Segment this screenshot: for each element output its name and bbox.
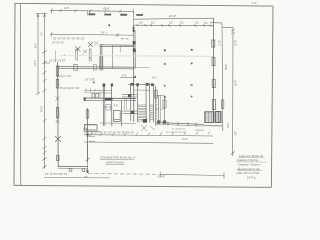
svg-text:Checked + Drawn c: Checked + Drawn c xyxy=(238,162,261,166)
left wall pilaster rects xyxy=(56,66,58,76)
dim line mid-left horizontal xyxy=(50,34,134,35)
svg-text:5'0" 3'6" 5'0" 4'0" 5'0": 5'0" 3'6" 5'0" 4'0" 5'0" xyxy=(166,132,187,134)
cluster vertical x=121.5 xyxy=(120,101,122,126)
cluster vertical x=100 xyxy=(99,90,101,98)
tick marks on lower dim xyxy=(137,24,139,27)
cluster vertical x=112 xyxy=(111,84,113,126)
bottom-left dim line xyxy=(44,177,110,179)
cluster corridor double wall xyxy=(84,97,136,100)
border left inner xyxy=(19,3,21,185)
X brace near ramp xyxy=(141,125,147,131)
pit rectangle xyxy=(114,111,121,122)
small hollow rect in cluster xyxy=(106,105,111,111)
rotated texts right dim lines xyxy=(218,40,237,135)
stair treads left flight xyxy=(138,105,146,121)
right dim vertical line x=232 xyxy=(232,27,234,156)
svg-text:3'6" +: 3'6" + xyxy=(101,32,107,34)
cluster line y123 xyxy=(100,122,136,124)
L wall left of cluster xyxy=(86,108,88,162)
svg-text:3'0 4'6 2'6 5'0: 3'0 4'6 2'6 5'0 xyxy=(172,129,186,131)
right dim vertical line x=222 xyxy=(221,23,224,131)
small marks left of dash row xyxy=(88,11,90,16)
svg-text:approved by wm: approved by wm xyxy=(241,167,261,171)
title block bottom right xyxy=(236,154,266,180)
svg-text:5;0: 5;0 xyxy=(195,22,199,25)
wall pilasters on room bottom wall xyxy=(74,65,77,71)
svg-text:Lawa & C. Barton wk: Lawa & C. Barton wk xyxy=(239,154,264,158)
svg-text:30'-0": 30'-0" xyxy=(234,80,237,86)
svg-text:1'6" 2'0" 3-6 2'6": 1'6" 2'0" 3-6 2'6" xyxy=(49,61,66,63)
svg-text:19 47 g: 19 47 g xyxy=(247,176,256,180)
svg-text:4'-0": 4'-0" xyxy=(122,74,127,77)
svg-text:5;0: 5;0 xyxy=(151,21,155,24)
svg-text:8'0": 8'0" xyxy=(234,131,237,135)
right wall vertical xyxy=(213,18,215,112)
svg-text:5;0: 5;0 xyxy=(204,22,208,25)
marks on corridor wall xyxy=(168,122,196,127)
svg-text:4'6" 7'6" 5'0" 16'0" 5'0: 4'6" 7'6" 5'0" 16'0" 5'0 xyxy=(45,174,68,176)
band lower corridor xyxy=(122,110,137,112)
svg-text:#5 @ 12" O.C.: #5 @ 12" O.C. xyxy=(57,76,72,78)
short dim right top A xyxy=(210,22,222,24)
svg-text:12'6: 12'6 xyxy=(64,6,69,10)
border bottom xyxy=(14,185,271,187)
svg-text:NORTH WING: NORTH WING xyxy=(106,161,124,165)
svg-text:21'-0": 21'-0" xyxy=(182,138,188,141)
svg-text:8'-0": 8'-0" xyxy=(34,43,37,48)
dashed wall row top xyxy=(89,13,144,16)
bottom-left wall corner double line xyxy=(58,165,88,167)
bottom long dim line dashed part xyxy=(88,173,160,176)
svg-text:Drawing 4 Tracing ...: Drawing 4 Tracing ... xyxy=(237,158,261,162)
svg-text:5;0: 5;0 xyxy=(139,21,143,24)
svg-text:4'0" 3'6" 5'0" 3'6" 6'0" 5'0": 4'0" 3'6" 5'0" 3'6" 6'0" 5'0" 4'6" 5'0" … xyxy=(86,133,134,135)
svg-text:24'-0": 24'-0" xyxy=(40,106,43,112)
stair treads right flight xyxy=(150,105,153,119)
stair shaft verticals xyxy=(130,83,132,121)
svg-text:5;0: 5;0 xyxy=(180,22,184,25)
svg-text:21'-6": 21'-6" xyxy=(218,40,221,46)
svg-text:2'0" 6'0" 3'0: 2'0" 6'0" 3'0 xyxy=(52,42,65,44)
svg-text:4'-0": 4'-0" xyxy=(252,1,257,5)
room bottom double wall xyxy=(58,66,135,69)
svg-text:58'-0": 58'-0" xyxy=(225,64,228,70)
svg-text:FOUNDATION PLAN No. 4: FOUNDATION PLAN No. 4 xyxy=(101,156,136,160)
faint scan band A xyxy=(60,55,213,58)
hatched ramp block right xyxy=(206,112,214,122)
svg-text:10'0": 10'0" xyxy=(227,123,230,128)
long interior line under dim row xyxy=(84,142,213,143)
level flag annotation center xyxy=(120,77,136,79)
border top xyxy=(15,3,273,6)
dim row under cluster xyxy=(84,135,213,136)
paper background xyxy=(0,0,280,192)
svg-text:114'-6": 114'-6" xyxy=(157,174,165,178)
corridor wall right of cluster xyxy=(156,123,204,125)
svg-text:43'-0": 43'-0" xyxy=(103,6,110,10)
room inner verticals xyxy=(112,45,114,68)
hatch ticks between bands xyxy=(125,98,127,110)
cluster short line y107 xyxy=(104,106,112,108)
vertical dim at x=87.5 lower xyxy=(87,134,89,137)
svg-text:3'0" 5'6": 3'0" 5'6" xyxy=(85,79,93,81)
anchor bolt cluster B xyxy=(88,42,93,47)
tick crosses on left dims xyxy=(43,51,47,54)
stair shaft dark caps xyxy=(131,83,154,86)
svg-text:5;0: 5;0 xyxy=(169,22,173,25)
svg-text:24'-0": 24'-0" xyxy=(34,60,37,66)
border right xyxy=(271,6,273,187)
border left outer xyxy=(14,3,15,185)
short dim right top B xyxy=(222,26,233,28)
drain circles on bottom wall xyxy=(69,169,72,172)
dim line top-left horizontal xyxy=(50,10,134,11)
short line right of stair xyxy=(155,94,165,96)
room left wall xyxy=(99,44,101,68)
column dot grid xyxy=(108,24,192,98)
anchor bolt X marks upper left xyxy=(76,47,81,52)
svg-text:2'6" 3'0" 4'6": 2'6" 3'0" 4'6" xyxy=(84,125,96,127)
svg-text:#5 @ 12 E.W. T+B: #5 @ 12 E.W. T+B xyxy=(60,88,80,90)
faint scan band B xyxy=(140,55,213,57)
bottom long dim line solid part xyxy=(160,174,224,175)
svg-text:16'-0": 16'-0" xyxy=(234,40,237,46)
dim line top-right lower xyxy=(134,24,214,26)
left wall X brace xyxy=(55,136,61,142)
svg-text:5'-6"....: 5'-6".... xyxy=(152,78,159,80)
svg-text:scale: 1/8"=1'-0" feb: scale: 1/8"=1'-0" feb xyxy=(236,171,260,175)
cluster top line xyxy=(84,89,112,91)
top-left room: top double wall xyxy=(100,44,135,46)
right wall column rects xyxy=(212,40,215,47)
band mid corridor xyxy=(122,93,137,95)
svg-text:1'6" 3'0: 1'6" 3'0 xyxy=(156,109,164,111)
rotated texts left dim lines xyxy=(34,32,43,112)
svg-text:5'0" 4'0" 3'0" 4'0" 3'0" 4'0": 5'0" 4'0" 3'0" 4'0" 3'0" 4'0" 3'6" xyxy=(53,37,85,40)
vertical dim line far left B xyxy=(44,13,46,168)
svg-text:21'-0": 21'-0" xyxy=(169,14,176,18)
dim line top-right upper xyxy=(134,18,214,19)
cluster vertical pair x=104 xyxy=(102,83,104,126)
short vertical above wall start xyxy=(54,50,56,62)
left building wall vertical xyxy=(57,62,60,167)
right shaft wall xyxy=(155,86,157,126)
svg-text:1'6": 1'6" xyxy=(41,32,43,36)
wall corner dark blobs xyxy=(133,41,136,44)
open rect bottom-left of cluster xyxy=(85,125,98,131)
vertical dim line far left A xyxy=(37,13,39,94)
small hatched bracket xyxy=(92,94,95,98)
room right wall pair xyxy=(132,11,134,41)
